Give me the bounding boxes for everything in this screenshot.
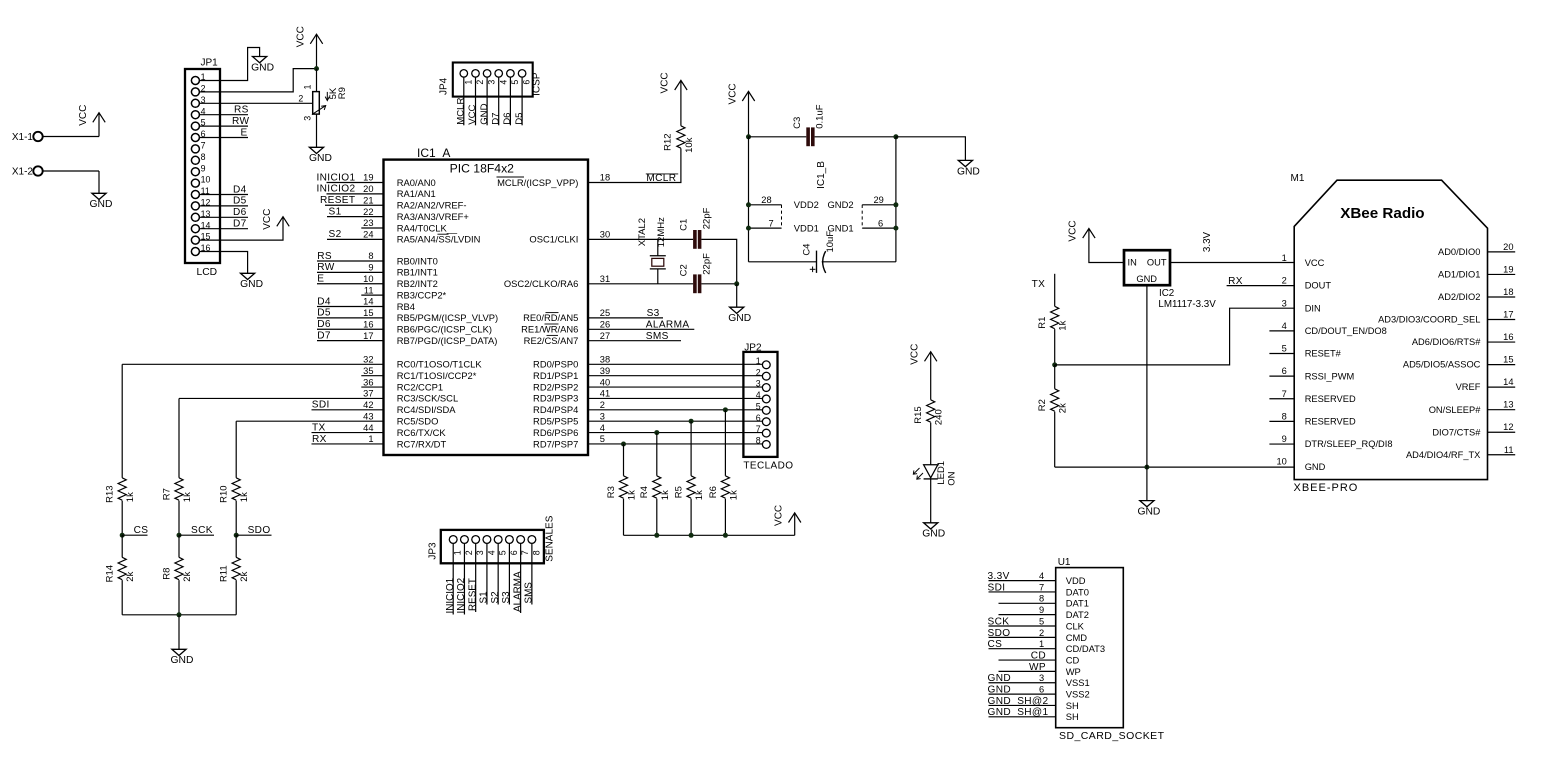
capacitor C4 10uF [802,231,837,273]
svg-text:15: 15 [363,308,373,318]
wire R13 drop [121,364,123,478]
svg-text:GND: GND [988,707,1011,718]
svg-text:SH: SH [1066,711,1079,722]
svg-text:GND: GND [309,153,332,164]
wire JP3 S3 [508,543,510,604]
svg-text:C2: C2 [679,264,690,276]
svg-text:8: 8 [201,152,206,162]
wire bottom rail right [822,261,896,263]
svg-text:RD7/PSP7: RD7/PSP7 [533,438,578,449]
wire IC1_A left pin INICIO1 [327,182,384,184]
wire IC1_A left pin INICIO2 [327,193,384,195]
wire IC1_A left pin RW [317,271,384,273]
svg-text:19: 19 [1503,264,1513,274]
svg-text:1: 1 [463,80,473,85]
wire VCC drop to rail [748,91,750,136]
wire OSC1 (pin 30) [588,238,693,240]
wire net E (JP1 pin6) [199,137,248,139]
svg-text:6: 6 [878,218,883,228]
svg-text:VCC: VCC [727,83,738,104]
resistor R15 240 [913,400,945,425]
svg-text:SDO: SDO [988,628,1011,639]
svg-text:RB0/INT0: RB0/INT0 [397,255,438,266]
svg-text:DOUT: DOUT [1305,281,1332,291]
svg-text:41: 41 [600,389,610,399]
capacitor C3 0.1uF [792,104,826,146]
power VCC (IC1_B rail) [727,83,754,104]
svg-text:4: 4 [1282,321,1287,331]
svg-text:6: 6 [1282,366,1287,376]
wire JP3 INICIO2 [463,543,465,614]
svg-text:RC1/T1OSI/CCP2*: RC1/T1OSI/CCP2* [397,370,477,381]
svg-text:RB6/PGC/(ICSP_CLK): RB6/PGC/(ICSP_CLK) [397,324,492,335]
wire R5 to VCC bus [690,499,692,536]
svg-text:OSC2/CLKO/RA6: OSC2/CLKO/RA6 [504,278,579,289]
resistor R6 1k [708,476,740,500]
wire XBee right stub [1488,386,1516,388]
junction GND2 [893,202,898,207]
svg-text:1k: 1k [182,492,193,502]
svg-text:SH@1: SH@1 [1017,707,1048,718]
svg-text:GND: GND [922,529,945,540]
svg-text:X1-2: X1-2 [12,167,34,178]
ground GND (LED1) [922,523,945,540]
svg-text:VREF: VREF [1456,382,1481,392]
svg-text:AD3/DIO3/COORD_SEL: AD3/DIO3/COORD_SEL [1378,315,1480,325]
resistor R4 1k [639,476,671,500]
junction R5 top [689,419,694,424]
svg-text:RESERVED: RESERVED [1305,394,1356,404]
wire net RW (JP1 pin5) [199,125,248,127]
svg-text:DIO7/CTS#: DIO7/CTS# [1432,427,1481,437]
svg-text:IC2: IC2 [1159,288,1174,299]
svg-text:VCC: VCC [467,104,478,124]
svg-text:RD6/PSP6: RD6/PSP6 [533,427,578,438]
wire net D4 (JP1 pin11) [199,194,248,196]
wire U1 DAT2 pin [999,614,1056,616]
wire U1 SH pin [989,704,1056,706]
wire R7 drop [178,398,180,477]
power VCC (teclado bus) [774,505,801,526]
svg-text:11: 11 [1504,445,1514,455]
svg-text:RS: RS [234,105,249,116]
svg-text:12MHz: 12MHz [656,217,667,247]
svg-text:17: 17 [363,331,373,341]
wire U1 VSS2 pin [989,693,1056,695]
svg-text:CLK: CLK [1066,620,1085,631]
svg-text:D5: D5 [317,308,331,319]
svg-text:RB5/PGM/(ICSP_VLVP): RB5/PGM/(ICSP_VLVP) [397,312,498,323]
svg-text:18: 18 [1503,287,1513,297]
svg-text:AD5/DIO5/ASSOC: AD5/DIO5/ASSOC [1403,360,1481,370]
svg-text:VDD2: VDD2 [794,199,819,210]
svg-text:S2: S2 [329,229,342,240]
wire JP3 SMS [531,543,533,604]
svg-text:PIC 18F4x2: PIC 18F4x2 [450,162,515,176]
svg-text:36: 36 [363,377,373,387]
wire JP1 pin3 to R9 wiper [199,102,313,104]
svg-text:2: 2 [298,94,303,104]
svg-text:37: 37 [363,389,373,399]
svg-text:9: 9 [201,163,206,173]
wire RD1 to JP2 pin2 [588,375,762,377]
svg-text:SENALES: SENALES [544,515,555,561]
wire RD2 to JP2 pin3 [588,386,762,388]
junction R1/R2 node [1052,362,1057,367]
svg-text:CD/DOUT_EN/DO8: CD/DOUT_EN/DO8 [1305,326,1387,336]
ground GND (divider bus) [171,649,194,666]
ic IC1_B power pins [749,161,896,234]
svg-text:S3: S3 [647,308,660,319]
wire JP4 pin3 stub [486,77,488,125]
wire IC1_A left pin S2 [327,238,384,240]
wire IC2 OUT 3.3V to XBee VCC [1170,262,1294,264]
svg-text:JP1: JP1 [201,58,219,69]
ground GND (X1-2) [90,193,113,210]
svg-text:RSSI_PWM: RSSI_PWM [1305,371,1355,381]
svg-text:VDD: VDD [1066,575,1086,586]
svg-text:31: 31 [600,274,610,284]
svg-text:R14: R14 [105,565,116,582]
svg-text:MCLR/(ICSP_VPP): MCLR/(ICSP_VPP) [497,177,578,188]
svg-text:D4: D4 [233,184,247,195]
svg-text:10uF: 10uF [825,231,836,253]
svg-text:ICSP: ICSP [532,72,543,96]
wire U1 DAT1 pin [999,602,1056,604]
wire IC1_A left pin [361,227,383,229]
svg-text:5: 5 [498,550,508,555]
svg-text:14: 14 [363,297,373,307]
svg-text:25: 25 [600,308,610,318]
resistor R14 2k [105,557,137,582]
connector JP4 (ICSP) [438,63,542,97]
svg-text:X1-1: X1-1 [12,132,34,143]
wire net RX (pin 1) [312,443,384,445]
svg-text:AD0/DIO0: AD0/DIO0 [1438,247,1480,257]
junction C2/GND node [734,281,739,286]
svg-text:40: 40 [600,377,610,387]
junction GND rail [1144,465,1149,470]
svg-text:RC6/TX/CK: RC6/TX/CK [397,427,447,438]
wire IC1_A pin 35 stub [361,375,383,377]
node CS [120,533,125,538]
svg-text:AD2/DIO2: AD2/DIO2 [1438,292,1480,302]
wire R15 to LED1 [930,423,932,465]
svg-text:30: 30 [600,230,610,240]
svg-text:22pF: 22pF [701,207,712,229]
svg-text:CD/DAT3: CD/DAT3 [1066,643,1105,654]
svg-text:13: 13 [1503,400,1513,410]
svg-text:38: 38 [600,355,610,365]
wire U1 CD pin [999,659,1056,661]
wire IC1_A left pin [361,294,383,296]
module M1 XBee Radio [1276,173,1513,494]
connector JP2 (TECLADO) [743,342,793,471]
svg-text:VCC: VCC [660,72,671,93]
resistor R5 1k [674,476,706,500]
svg-text:GND: GND [90,199,113,210]
svg-text:1: 1 [302,84,312,89]
svg-text:1k: 1k [125,492,136,502]
svg-text:RC3/SCK/SCL: RC3/SCK/SCL [397,393,458,404]
wire VCC to IC2 IN [1089,229,1124,263]
svg-text:RX: RX [1228,276,1243,287]
svg-text:D6: D6 [317,319,331,330]
node SDO [234,533,239,538]
svg-text:DAT2: DAT2 [1066,609,1089,620]
svg-text:ALARMA: ALARMA [646,320,690,331]
ground GND (R9) [309,147,332,164]
svg-text:3: 3 [302,116,312,121]
svg-text:S1: S1 [479,591,490,604]
svg-text:R9: R9 [337,87,348,99]
wire stub SCK [179,534,214,536]
svg-text:20: 20 [363,184,373,194]
svg-text:R4: R4 [639,486,650,498]
svg-text:SDO: SDO [248,525,271,536]
wire IC1_A pin 36 stub [361,386,383,388]
power VCC (JP1 pin15) [262,209,289,230]
svg-text:RE1/WR/AN6: RE1/WR/AN6 [521,324,578,335]
wire U1 DAT0 pin [989,591,1056,593]
wire JP4 pin6 stub [521,77,523,125]
regulator IC2 LM1117-3.3V [1124,250,1216,310]
svg-text:VCC: VCC [774,505,785,526]
svg-text:9: 9 [1039,605,1044,615]
svg-text:WP: WP [1066,666,1081,677]
wire to GND (oscillator) [736,284,738,307]
svg-text:MCLR: MCLR [456,98,467,125]
wire R3 to VCC bus [623,499,625,536]
node SCK [177,533,182,538]
svg-text:U1: U1 [1058,557,1071,568]
wire VCC bus (teclado) [624,534,795,536]
svg-text:5: 5 [510,80,520,85]
ic IC1_A PIC 18F4x2 [363,146,610,455]
wire stub SDO [236,534,271,536]
wire C2 right [701,283,736,285]
wire net D7 (JP1 pin14) [199,228,248,230]
wire JP4 pin1 stub [463,77,465,125]
svg-text:D7: D7 [490,113,501,125]
wire XBee pin8 stub [1269,420,1294,422]
svg-text:1: 1 [1039,639,1044,649]
wire JP3 S1 [486,543,488,604]
junction VDD2 [746,202,751,207]
wire net ALARMA (pin 26) [588,328,694,330]
wire node to R14 [121,535,123,557]
svg-text:E: E [317,274,324,285]
svg-text:CS: CS [988,639,1003,650]
svg-text:C1: C1 [679,219,690,231]
svg-text:SCK: SCK [191,525,213,536]
svg-text:AD1/DIO1: AD1/DIO1 [1438,270,1480,280]
wire bus riser to VCC [794,513,796,535]
wire U1 CD/DAT3 pin [989,648,1056,650]
junction VDD1 [746,226,751,231]
ground GND (oscillator) [728,307,751,324]
wire IC1_A left pin D5 [317,317,384,319]
svg-text:5: 5 [600,434,605,444]
svg-text:10: 10 [1276,457,1286,467]
svg-text:S3: S3 [501,591,512,604]
svg-text:2: 2 [600,400,605,410]
power VCC (R12) [660,72,687,93]
svg-text:GND: GND [1305,462,1326,472]
svg-text:RD5/PSP5: RD5/PSP5 [533,416,578,427]
svg-text:R11: R11 [219,565,230,582]
svg-text:RC2/CCP1: RC2/CCP1 [397,381,443,392]
resistor R2 2k [1037,389,1069,413]
svg-text:19: 19 [363,173,373,183]
wire node to R11 [235,535,237,557]
wire XBee right stub [1488,251,1516,253]
svg-text:R8: R8 [161,568,172,580]
wire GND stub [1146,467,1148,501]
connector JP1 (LCD) [185,58,220,278]
svg-text:RD0/PSP0: RD0/PSP0 [533,359,578,370]
svg-text:2: 2 [475,80,485,85]
resistor R12 10k [662,126,695,153]
svg-text:3: 3 [487,80,497,85]
wire IC1_A left pin S1 [327,216,384,218]
svg-text:RD3/PSP3: RD3/PSP3 [533,393,578,404]
svg-text:1k: 1k [660,490,671,500]
wire XBee right stub [1488,454,1516,456]
svg-text:R3: R3 [606,486,617,498]
ground GND (IC2) [1137,501,1160,518]
junction bus R4 [654,533,659,538]
wire stub CS [122,534,147,536]
wire R11 to GND bus [235,580,237,615]
svg-text:RESERVED: RESERVED [1305,417,1356,427]
svg-text:D7: D7 [233,219,247,230]
svg-text:24: 24 [363,230,373,240]
wire RD6 to JP2 pin7 [588,432,762,434]
svg-text:GND: GND [251,62,274,73]
svg-text:17: 17 [1503,310,1513,320]
wire U1 VDD pin [989,580,1056,582]
svg-text:6: 6 [509,550,519,555]
wire IC1_A left pin RESET [325,204,384,206]
svg-text:12: 12 [1503,422,1513,432]
wire IC1_A to R10 [236,420,383,422]
svg-text:RS: RS [317,251,332,262]
svg-text:DAT0: DAT0 [1066,586,1089,597]
svg-text:RA3/AN3/VREF+: RA3/AN3/VREF+ [397,211,470,222]
wire VCC to R9 [316,34,318,68]
svg-text:INICIO2: INICIO2 [317,184,356,195]
wire node to R8 [178,535,180,557]
svg-text:1k: 1k [627,490,638,500]
svg-text:RA5/AN4/SS/LVDIN: RA5/AN4/SS/LVDIN [397,234,481,245]
wire JP1 pin15 to VCC [199,217,283,240]
svg-text:D6: D6 [233,207,247,218]
wire XBee pin9 stub [1269,443,1294,445]
wire net SMS (pin 27) [588,340,681,342]
wire R10 to node SDO [235,501,237,536]
svg-text:4: 4 [486,550,496,555]
svg-text:7: 7 [1282,389,1287,399]
power VCC (R9) [295,26,322,47]
svg-text:R12: R12 [662,133,673,150]
potentiometer R9 5K [298,84,348,120]
svg-text:VCC: VCC [295,26,306,47]
svg-text:16: 16 [1503,332,1513,342]
svg-text:VCC: VCC [1068,220,1079,241]
svg-text:DAT1: DAT1 [1066,598,1089,609]
svg-text:14: 14 [1503,377,1513,387]
svg-text:VDD1: VDD1 [794,222,819,233]
svg-text:42: 42 [363,400,373,410]
svg-text:JP3: JP3 [427,542,438,560]
svg-text:18: 18 [600,173,610,183]
svg-text:TECLADO: TECLADO [743,460,793,471]
svg-text:RA2/AN2/VREF-: RA2/AN2/VREF- [397,200,467,211]
svg-text:LCD: LCD [197,267,218,278]
svg-text:SDI: SDI [988,582,1006,593]
wire XBee right stub [1488,409,1516,411]
svg-text:3: 3 [1282,298,1287,308]
svg-text:D4: D4 [317,296,331,307]
svg-text:2k: 2k [182,571,193,581]
svg-text:SCK: SCK [988,616,1010,627]
wire JP3 S2 [497,543,499,604]
resistor R3 1k [606,476,638,500]
wire OSC2 (pin 31) [588,283,693,285]
svg-text:3: 3 [600,411,605,421]
svg-text:6: 6 [522,80,532,85]
power VCC (X1-1) [78,105,105,126]
svg-text:8: 8 [1282,411,1287,421]
wire X1-2 to GND [43,170,99,172]
svg-text:ALARMA: ALARMA [512,571,523,612]
led LED1 ON [913,461,957,486]
junction bus R5 [689,533,694,538]
svg-text:RW: RW [232,116,249,127]
svg-text:RB2/INT2: RB2/INT2 [397,278,438,289]
wire net D5 (JP1 pin12) [199,205,248,207]
svg-text:0.1uF: 0.1uF [814,104,825,128]
svg-text:3: 3 [475,550,485,555]
svg-text:C3: C3 [792,117,803,129]
wire XBee right stub [1488,273,1516,275]
wire JP4 pin5 stub [509,77,511,125]
svg-text:RC4/SDI/SDA: RC4/SDI/SDA [397,404,457,415]
wire XBee pin4 stub [1269,330,1294,332]
wire R4 to VCC bus [656,499,658,536]
wire IC1_A left pin RS [317,260,384,262]
junction R6 top [723,407,728,412]
svg-text:R6: R6 [708,486,719,498]
wire RD4 to JP2 pin5 [588,409,762,411]
ground GND (IC1_B rail) [957,160,980,177]
svg-text:5: 5 [1282,344,1287,354]
svg-text:7: 7 [201,141,206,151]
svg-text:VCC: VCC [1305,258,1325,268]
wire IC1_A left pin D7 [317,340,384,342]
svg-text:GND: GND [171,655,194,666]
svg-text:VCC: VCC [910,344,921,365]
wire XBee right stub [1488,341,1516,343]
wire JP3 RESET [475,543,477,612]
capacitor C2 22pF [679,253,713,293]
wire JP1 pin2 to R9 top [199,69,316,92]
svg-text:RESET: RESET [320,195,355,206]
svg-text:RD2/PSP2: RD2/PSP2 [533,381,578,392]
svg-text:RX: RX [312,434,327,445]
svg-text:240: 240 [934,409,945,425]
